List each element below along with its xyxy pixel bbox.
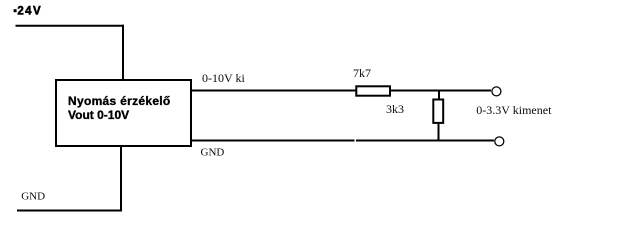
node junction to R2 [438,91,440,105]
resistor R2 3k3 (vertical) [433,100,443,123]
wire GND rail from sensor to terminal (right part) [356,140,494,142]
svg-text:Vout 0-10V: Vout 0-10V [68,108,129,122]
node +24V label [14,6,42,18]
svg-text:GND: GND [201,146,225,158]
sensor box U1 (Nyomás érzékelő) [56,80,191,146]
terminal output top (0-3.3V) [492,87,501,96]
wire 24V vertical drop to sensor box [122,25,124,80]
terminal output bottom (GND) [495,137,504,146]
svg-text:Nyomás érzékelő: Nyomás érzékelő [68,94,171,108]
wire R2 bottom to GND rail [438,123,440,142]
svg-text:0-10V ki: 0-10V ki [202,71,245,85]
wire sensor bottom to GND rail vertical [120,146,122,212]
wire R1 to output terminal [390,90,491,92]
wire sensor out to R1 [191,90,356,92]
resistor R1 7k7 (horizontal) [356,86,390,95]
svg-text:7k7: 7k7 [353,66,371,80]
svg-text:0-3.3V kimenet: 0-3.3V kimenet [476,103,552,117]
wire GND horizontal bottom left [17,210,122,212]
svg-text:24V: 24V [17,6,42,18]
svg-text:GND: GND [21,190,45,202]
svg-text:3k3: 3k3 [386,102,404,116]
wire 24V horizontal [16,25,125,27]
wire GND rail from sensor to terminal (left part) [191,140,355,142]
